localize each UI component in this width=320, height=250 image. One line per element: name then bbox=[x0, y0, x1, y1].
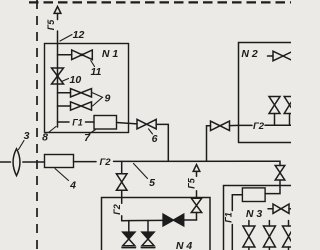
svg-text:Г2: Г2 bbox=[253, 121, 265, 132]
wire block4 to G2 label bbox=[74, 161, 97, 163]
valve on G5 branch in N4 bbox=[191, 198, 201, 212]
flow sensor 3 (lens) bbox=[13, 149, 20, 176]
svg-text:Г5: Г5 bbox=[187, 177, 197, 189]
leader of label 9 bbox=[93, 93, 103, 106]
valve bottom a in N3 bbox=[243, 221, 255, 250]
wire G5 to box N4 bbox=[196, 171, 198, 198]
valve in N4 (bowtie) bbox=[163, 214, 184, 226]
svg-text:8: 8 bbox=[42, 132, 48, 144]
block G1 of N3 bbox=[242, 188, 265, 202]
box N4 bbox=[102, 198, 211, 250]
valve 9b bbox=[71, 102, 92, 110]
leader of label 12 bbox=[60, 35, 72, 42]
svg-text:Г1: Г1 bbox=[72, 118, 83, 128]
block 4 bbox=[45, 155, 74, 168]
box N1 bbox=[45, 44, 129, 133]
left dashed boundary line bbox=[36, 0, 38, 250]
svg-text:10: 10 bbox=[70, 74, 82, 86]
svg-text:Г5: Г5 bbox=[46, 19, 56, 31]
wire block7 to box edge bbox=[117, 123, 138, 124]
svg-text:N 3: N 3 bbox=[246, 208, 263, 220]
valve on right riser bbox=[275, 166, 285, 181]
valve bottom b in N3 bbox=[263, 221, 275, 250]
svg-text:N 4: N 4 bbox=[176, 240, 193, 250]
svg-text:11: 11 bbox=[91, 66, 102, 78]
svg-text:4: 4 bbox=[69, 180, 76, 192]
wire valve to box N2 bbox=[230, 124, 239, 126]
leader of label 7 bbox=[89, 130, 96, 135]
svg-text:3: 3 bbox=[24, 130, 30, 142]
wire riser to valve near N2 bbox=[207, 126, 211, 162]
leader of label 5 bbox=[134, 164, 148, 179]
wire G5 to box N1 bbox=[57, 13, 59, 43]
svg-text:6: 6 bbox=[152, 133, 158, 145]
wire G2 drop to valve 5 bbox=[121, 161, 123, 173]
wire pipe inside N1 bbox=[57, 44, 59, 128]
wire bowtie to G5 branch bbox=[184, 213, 197, 221]
svg-text:9: 9 bbox=[105, 93, 111, 105]
wire G1 pipe lower bbox=[231, 225, 233, 250]
svg-text:Г2: Г2 bbox=[99, 157, 111, 168]
valve 10 bbox=[52, 68, 69, 84]
leader of label 4 bbox=[55, 169, 69, 181]
wire manifold in N4 bbox=[122, 219, 163, 221]
valve b in N2 bbox=[284, 97, 295, 126]
wire G1 run in N1 bbox=[58, 121, 95, 123]
sensor feed wire (left) bbox=[0, 161, 11, 163]
valve 9a bbox=[71, 89, 92, 97]
node G5 arrow (top) bbox=[54, 7, 61, 14]
valve 5 bbox=[116, 174, 127, 191]
leader of label 8 bbox=[49, 127, 57, 133]
valve bottom a in N4 bbox=[122, 232, 136, 248]
wire drop b in N4 bbox=[147, 221, 149, 233]
node G5 arrow (center) bbox=[193, 165, 200, 172]
wire stub to valve 9a bbox=[58, 92, 71, 94]
valve bottom c in N3 bbox=[283, 221, 295, 250]
svg-text:Г2: Г2 bbox=[112, 204, 122, 215]
wire block to G1 pipe bbox=[232, 195, 242, 211]
valve 11 bbox=[72, 50, 95, 67]
svg-text:N 2: N 2 bbox=[241, 48, 258, 60]
box N2 bbox=[239, 43, 292, 143]
box N3 bbox=[224, 186, 292, 250]
leader of label 3 bbox=[19, 141, 25, 150]
block 7 bbox=[94, 116, 117, 130]
wire G2 header bbox=[114, 161, 281, 165]
svg-text:5: 5 bbox=[149, 177, 155, 189]
svg-text:N 1: N 1 bbox=[102, 48, 119, 60]
wire lens to block 4 bbox=[23, 161, 45, 163]
wire stub to valve 11 bbox=[58, 54, 72, 56]
svg-text:Г1: Г1 bbox=[224, 212, 234, 223]
top dashed boundary line bbox=[29, 1, 291, 3]
svg-text:12: 12 bbox=[73, 29, 85, 41]
valve 6 bbox=[137, 119, 156, 134]
wire drop a in N4 bbox=[128, 221, 130, 233]
valve bowtie in N3 bbox=[268, 204, 291, 213]
valve a in N2 bbox=[269, 97, 280, 126]
valve between header and N2 bbox=[211, 121, 230, 130]
valve bottom b in N4 bbox=[141, 232, 155, 248]
wire valve5 into N4 bbox=[121, 190, 123, 220]
wire valve6 to header bbox=[156, 124, 168, 161]
wire stub to valve 9b bbox=[58, 105, 71, 107]
wire header corner down to valve right bbox=[265, 180, 280, 194]
valve top in N2 bbox=[268, 51, 294, 61]
wire G2 pipe in N2 bbox=[239, 124, 292, 126]
